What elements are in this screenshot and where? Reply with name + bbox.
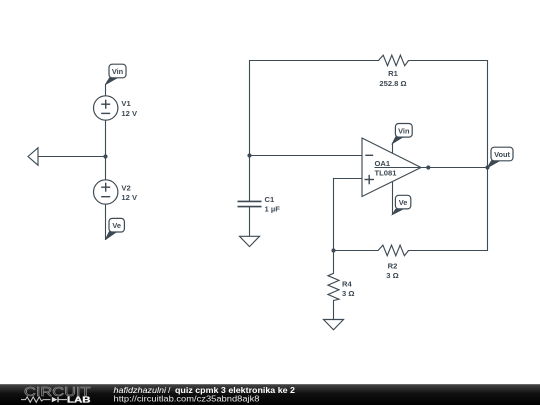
node junction at R2/R4 (331, 248, 335, 252)
wire: bottom horizontal right of R2 (409, 250, 488, 252)
wire: inverting input horizontal (250, 155, 363, 157)
logo resistor zigzag (21, 397, 51, 402)
resistor R4 (328, 273, 339, 300)
svg-text:Vin: Vin (398, 126, 410, 135)
wire: right vertical (Vout to R2) (487, 61, 489, 251)
svg-text:1 µF: 1 µF (265, 205, 281, 214)
capacitor C1 (238, 201, 262, 206)
wire: non-inverting input vertical (333, 179, 335, 251)
node junction at op-amp output (426, 165, 430, 169)
svg-text:TL081: TL081 (375, 168, 398, 177)
svg-text:12 V: 12 V (121, 109, 138, 118)
wire: top feedback horizontal left segment (250, 60, 379, 62)
wire: op-amp V- pin stub (392, 182, 394, 215)
resistor R1 (379, 55, 409, 65)
svg-text:Ve: Ve (112, 221, 121, 230)
svg-text:12 V: 12 V (121, 193, 138, 202)
wire: non-inverting input horizontal (334, 178, 363, 180)
svg-text:Vout: Vout (494, 150, 510, 159)
footer bar (0, 384, 540, 405)
wire: V2 bottom to Ve flag anchor (105, 204, 107, 240)
non-inverting input marker (365, 175, 375, 185)
logo diode (52, 397, 58, 402)
ground (under R4) (324, 320, 344, 330)
flag Vout (488, 147, 514, 167)
op-amp OA1 (362, 138, 421, 197)
wire: op-amp V+ pin stub (392, 143, 394, 153)
svg-text:V2: V2 (121, 184, 130, 193)
svg-text:252.8 Ω: 252.8 Ω (379, 79, 406, 88)
wire: node to R4 top (333, 251, 335, 274)
resistor R2 (378, 245, 409, 256)
ground (under C1) (240, 236, 260, 246)
wire: V1 bottom to V2 top (105, 120, 107, 180)
svg-text:3 Ω: 3 Ω (342, 289, 354, 298)
node junction at V sources (103, 154, 107, 158)
svg-text:OA1: OA1 (375, 159, 391, 168)
inverting input marker (365, 154, 373, 156)
svg-text:Ve: Ve (399, 198, 408, 207)
flag Vin (left source) (106, 64, 127, 84)
svg-text:Vin: Vin (112, 67, 124, 76)
svg-text:3 Ω: 3 Ω (386, 271, 398, 280)
voltage source V2 (94, 180, 118, 204)
antenna / left net flag (28, 148, 38, 165)
wire: left vertical (feedback to C1) (249, 61, 251, 202)
flag Ve (op-amp V-) (393, 195, 411, 214)
node junction at Vout wire (485, 165, 489, 169)
wire: R4 bottom to ground (333, 301, 335, 320)
svg-text:R2: R2 (388, 262, 398, 271)
svg-text:C1: C1 (265, 195, 275, 204)
flag Vin (op-amp V+) (393, 124, 413, 144)
wire: C1 bottom to ground (249, 207, 251, 237)
svg-text:R1: R1 (388, 69, 398, 78)
svg-text:V1: V1 (121, 99, 131, 108)
wire: output segment over op-amp body (375, 167, 429, 169)
node junction at inverting input (247, 153, 251, 157)
svg-text:LAB: LAB (67, 395, 91, 404)
voltage source V1 (94, 96, 118, 120)
svg-text:R4: R4 (342, 280, 352, 289)
logo wire to LAB (58, 399, 67, 401)
wire: bottom horizontal left of R2 (334, 250, 379, 252)
wire: node to left antenna (38, 156, 106, 158)
wire: Vin flag anchor to V1 top (105, 85, 107, 97)
svg-text:http://circuitlab.com/cz35abnd: http://circuitlab.com/cz35abnd8ajk8 (114, 394, 260, 404)
flag Ve (left source) (106, 218, 125, 239)
wire: top feedback horizontal right segment (409, 60, 488, 62)
wire: output horizontal (375, 167, 488, 169)
